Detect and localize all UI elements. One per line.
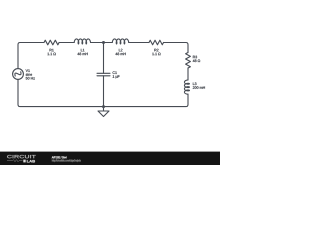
footer logo waveform	[7, 160, 23, 162]
node A junction dot	[102, 41, 105, 44]
footer line 2 url	[52, 159, 81, 162]
wire L3 to bottom-right corner and bottom rail to node B	[104, 94, 189, 106]
footer line 1 title	[52, 156, 67, 158]
resistor R3	[186, 53, 201, 69]
wire L1 to node A	[91, 42, 113, 44]
wire bottom rail from node B to bottom-left corner up to V1 bottom	[18, 79, 104, 106]
footer logo CIRCUIT	[7, 155, 36, 158]
wire from V1 top to top-left corner and to R1	[18, 43, 44, 69]
resistor R2	[149, 40, 164, 55]
footer logo LAB	[23, 160, 25, 163]
node B junction dot	[102, 105, 105, 108]
inductor L2	[112, 39, 128, 55]
resistor R1	[44, 40, 59, 55]
wire R3 to L3	[187, 68, 189, 80]
capacitor C1	[97, 43, 120, 107]
wire R1 to L1	[59, 42, 74, 44]
inductor L3	[184, 80, 204, 94]
wire L2 to R2	[129, 42, 149, 44]
footer bar	[0, 152, 220, 165]
voltage source V1	[13, 69, 35, 80]
inductor L1	[74, 39, 90, 55]
wire R2 to top-right corner down to R3	[164, 43, 189, 53]
ground	[98, 107, 109, 117]
